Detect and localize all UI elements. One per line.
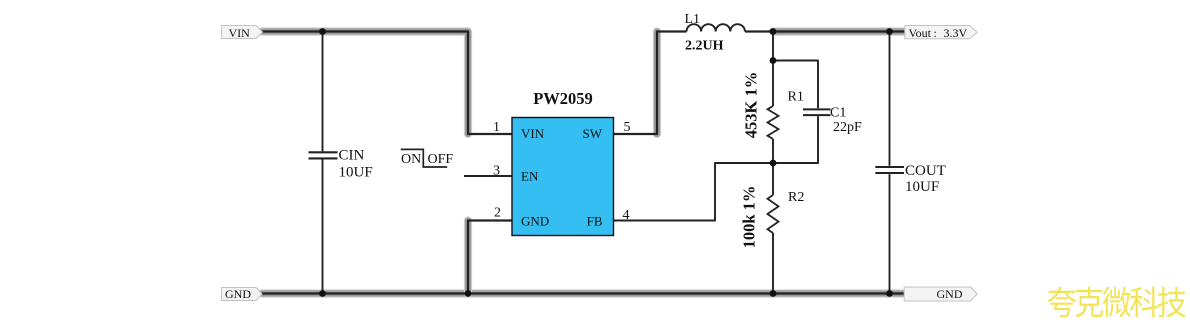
svg-text:10UF: 10UF (905, 179, 939, 195)
wire EN stub pin3 (464, 175, 512, 177)
svg-text:R2: R2 (788, 190, 804, 205)
wire VIN net highlight (gray underlay) (262, 32, 468, 135)
svg-text:453K 1%: 453K 1% (742, 72, 761, 138)
wire SW node down to R1 top node (772, 32, 774, 61)
watermark character 科 (1130, 287, 1158, 318)
svg-text:C1: C1 (830, 106, 846, 121)
resistor R1 value 453K 1% (742, 72, 761, 138)
svg-text:3: 3 (493, 164, 500, 179)
svg-text:GND: GND (225, 287, 251, 301)
node R2 bottom junction (770, 290, 777, 297)
IC U1 PW2059 (512, 89, 614, 236)
node U1 GND junction (465, 290, 472, 297)
svg-text:22pF: 22pF (833, 120, 862, 135)
wire C1 branch (773, 61, 818, 164)
wire U1 pin5 SW up to L1 (614, 32, 687, 135)
resistor R1 label (788, 90, 804, 105)
svg-text:FB: FB (587, 214, 603, 229)
watermark character 微 (1103, 287, 1131, 318)
port flag VIN (222, 26, 263, 41)
node CIN top junction (319, 28, 326, 35)
wire FB pin4 to divider node (614, 163, 774, 221)
wire L1 to Vout flag (745, 30, 905, 32)
pin number 1 (493, 120, 500, 135)
pin number 3 (493, 164, 500, 179)
wire Vout net highlight (gray underlay) (773, 27, 905, 35)
wire COUT branch (889, 32, 891, 294)
node CIN bottom junction (319, 290, 326, 297)
svg-text:R1: R1 (788, 90, 804, 105)
port flag GND left (222, 287, 263, 301)
inductor L1 (685, 12, 745, 54)
resistor R1 body (768, 106, 779, 139)
wire GND net highlight (gray underlay) (262, 221, 904, 294)
svg-text::: : (934, 26, 937, 40)
pin number 4 (623, 208, 630, 223)
svg-text:Vout: Vout (909, 26, 932, 40)
watermark character 技 (1158, 287, 1186, 318)
capacitor C1 (803, 106, 862, 136)
svg-text:VIN: VIN (521, 126, 545, 141)
wire CIN branch (322, 32, 324, 294)
node COUT top junction (886, 28, 893, 35)
op toggle ON/OFF switch annotation (401, 149, 454, 167)
watermark character 克 (1075, 287, 1103, 318)
pin number 5 (624, 120, 631, 135)
port flag Vout 3.3V (905, 26, 977, 41)
svg-text:OFF: OFF (428, 152, 454, 167)
node Vout/L1 junction (770, 28, 777, 35)
resistor R2 body (768, 195, 779, 233)
node R1/C1 top junction (770, 57, 777, 64)
svg-text:GND: GND (937, 287, 963, 301)
svg-text:SW: SW (583, 126, 603, 141)
svg-text:PW2059: PW2059 (533, 89, 593, 108)
svg-text:2.2UH: 2.2UH (685, 39, 724, 54)
port flag GND right (904, 287, 977, 301)
svg-text:100k 1%: 100k 1% (740, 186, 759, 249)
watermark character 夸 (1048, 287, 1076, 318)
wire R2 leads (772, 163, 774, 294)
capacitor CIN (309, 148, 373, 181)
wire VIN flag to U1 pin1 (262, 32, 512, 135)
svg-text:10UF: 10UF (339, 165, 373, 181)
wire R1 leads (772, 61, 774, 164)
svg-text:4: 4 (623, 208, 630, 223)
resistor R2 value 100k 1% (740, 186, 759, 249)
node FB divider junction (770, 160, 777, 167)
capacitor COUT (875, 163, 946, 195)
svg-text:3.3V: 3.3V (944, 26, 968, 40)
svg-text:L1: L1 (685, 12, 701, 27)
wire SW net vertical highlight (gray underlay) (653, 32, 661, 135)
resistor R2 label (788, 190, 804, 205)
svg-text:CIN: CIN (339, 148, 365, 164)
svg-text:ON: ON (401, 152, 421, 167)
wire U1 pin2 GND down to rail (468, 221, 512, 294)
svg-text:5: 5 (624, 120, 631, 135)
svg-text:VIN: VIN (229, 26, 251, 40)
svg-text:1: 1 (493, 120, 500, 135)
node COUT bottom junction (886, 290, 893, 297)
svg-text:EN: EN (521, 169, 539, 184)
svg-text:GND: GND (521, 214, 549, 229)
svg-text:2: 2 (494, 206, 501, 221)
svg-text:COUT: COUT (905, 163, 946, 179)
pin number 2 (494, 206, 501, 221)
wire GND rail (262, 292, 904, 294)
